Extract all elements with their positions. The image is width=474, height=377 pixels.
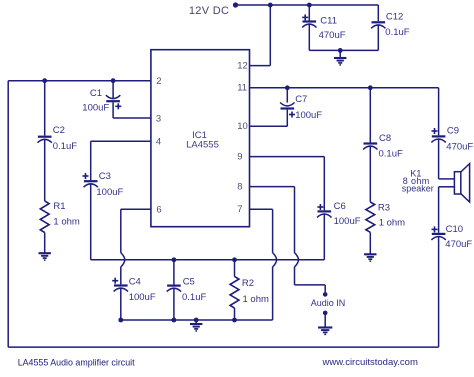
junction supply filter ground stub <box>338 48 343 53</box>
svg-text:1 ohm: 1 ohm <box>243 294 269 305</box>
svg-text:R3: R3 <box>378 202 390 213</box>
wire pin 4 to C3 <box>91 140 151 142</box>
label C3 <box>99 171 111 182</box>
capacitor C5 0.1uF <box>167 260 181 320</box>
label C2 value 0.1uF <box>53 141 77 152</box>
pin 11 number <box>237 83 247 94</box>
pin 7 number <box>237 204 242 215</box>
svg-text:C9: C9 <box>447 125 459 136</box>
IC IC1 LA4555 body <box>151 50 250 227</box>
wire C7 to pin 10 <box>250 125 288 127</box>
svg-text:10: 10 <box>237 121 248 132</box>
capacitor C11 470uF <box>302 5 316 50</box>
svg-text:11: 11 <box>237 83 247 94</box>
wire bottom component wire <box>121 319 273 321</box>
wire pin 8 with hop over bus to audio input <box>250 187 326 293</box>
label K1 <box>410 168 421 178</box>
label C10 value 470uF <box>445 239 472 250</box>
wire C1 to pin 3 <box>113 117 151 119</box>
pin 3 number <box>156 113 161 124</box>
svg-text:470uF: 470uF <box>319 30 346 41</box>
junction C2 branch on pin-2 wire <box>42 78 47 83</box>
pin 6 number <box>156 204 161 215</box>
svg-text:R1: R1 <box>53 201 65 212</box>
wire C2 top lead <box>44 81 46 136</box>
svg-text:C12: C12 <box>386 12 403 23</box>
label C11 value 470uF <box>319 30 346 41</box>
junction bottom-wire ground stub <box>194 318 199 323</box>
label C8 value 0.1uF <box>379 149 403 160</box>
junction C1 branch on pin-2 wire <box>111 78 116 83</box>
junction C5 bottom <box>172 318 177 323</box>
node audio ground terminal dot <box>323 311 328 316</box>
label LA4555 <box>186 140 219 151</box>
svg-text:LA4555 Audio amplifier circuit: LA4555 Audio amplifier circuit <box>18 357 135 367</box>
svg-text:C3: C3 <box>99 171 111 182</box>
label C10 <box>446 224 463 235</box>
wire bottom ground-return rail <box>8 346 438 348</box>
label C9 value 470uF <box>446 141 473 152</box>
label R3 value 1 ohm <box>379 217 405 228</box>
svg-text:C6: C6 <box>334 201 346 212</box>
capacitor C1 100uF <box>106 81 121 118</box>
capacitor C3 100uF <box>83 141 98 259</box>
label C1 <box>90 88 102 99</box>
svg-text:0.1uF: 0.1uF <box>379 149 403 160</box>
svg-text:6: 6 <box>156 204 161 215</box>
label C4 <box>129 276 141 287</box>
resistor R3 1 ohm <box>366 202 375 232</box>
wire pin 11 bus <box>250 87 439 89</box>
svg-text:Audio IN: Audio IN <box>311 298 346 308</box>
label C12 <box>386 12 403 23</box>
wire left rail <box>7 81 9 347</box>
label schematic title <box>18 357 135 367</box>
wire speaker upper lead <box>439 178 455 180</box>
junction C5 top on bus <box>172 257 177 262</box>
label C4 value 100uF <box>129 292 156 303</box>
svg-text:8: 8 <box>237 181 242 192</box>
wire supply rail to pin 12 <box>250 5 271 66</box>
pin 12 number <box>237 60 248 71</box>
label C2 <box>53 125 65 136</box>
label C7 value 100uF <box>295 110 322 121</box>
pin 10 number <box>237 121 248 132</box>
ground R1 <box>39 253 51 260</box>
junction R2 top on bus <box>232 257 237 262</box>
node Audio IN terminal dot <box>323 292 328 297</box>
speaker K1 8 ohm <box>454 164 469 202</box>
capacitor C9 470uF <box>431 88 445 179</box>
svg-text:C10: C10 <box>446 224 463 235</box>
wire pin 7 with hop over bus to bottom wire <box>250 209 277 320</box>
svg-text:0.1uF: 0.1uF <box>385 27 409 38</box>
svg-text:C4: C4 <box>129 276 141 287</box>
wire C2 to R1 <box>44 139 46 201</box>
wire R1 to ground <box>44 233 46 253</box>
capacitor C2 0.1uF <box>38 137 52 143</box>
label R1 <box>53 201 65 212</box>
svg-text:2: 2 <box>156 76 161 87</box>
wire 12V supply rail <box>236 4 379 6</box>
svg-text:4: 4 <box>156 137 161 148</box>
wire R3 to ground <box>369 232 371 253</box>
label C9 <box>447 125 459 136</box>
svg-text:C8: C8 <box>379 133 391 144</box>
svg-text:12: 12 <box>237 60 248 71</box>
label C8 <box>379 133 391 144</box>
svg-text:100uF: 100uF <box>96 187 123 198</box>
wire speaker lower lead <box>439 187 455 233</box>
node 12V DC supply label <box>189 5 229 17</box>
svg-text:speaker: speaker <box>402 183 434 193</box>
label C6 <box>334 201 346 212</box>
junction R2 bottom <box>232 318 237 323</box>
svg-text:1 ohm: 1 ohm <box>379 217 405 228</box>
capacitor C7 100uF <box>280 88 295 127</box>
label C7 <box>295 94 307 105</box>
pin 8 number <box>237 181 242 192</box>
capacitor C4 100uF <box>112 278 128 320</box>
label R2 value 1 ohm <box>243 294 269 305</box>
svg-text:1 ohm: 1 ohm <box>53 217 79 228</box>
pin 9 number <box>237 151 242 162</box>
capacitor C6 100uF <box>317 157 331 260</box>
label C5 <box>183 276 195 287</box>
junction C4 bottom <box>118 318 123 323</box>
label K1 8 ohm <box>403 176 430 186</box>
wire pin 6 to C4 with hop over bus <box>121 209 151 284</box>
label R3 <box>378 202 390 213</box>
label C12 value 0.1uF <box>385 27 409 38</box>
ground bottom wire <box>190 320 202 331</box>
wire C11 to C12 bottoms <box>309 49 378 51</box>
svg-text:0.1uF: 0.1uF <box>53 141 77 152</box>
svg-text:C7: C7 <box>295 94 307 105</box>
label C6 value 100uF <box>334 216 361 227</box>
label website credit <box>322 357 418 368</box>
svg-text:C5: C5 <box>183 276 195 287</box>
svg-text:7: 7 <box>237 204 242 215</box>
svg-text:R2: R2 <box>242 278 254 289</box>
junction C11 on supply rail <box>307 3 312 8</box>
capacitor C12 0.1uF <box>371 5 385 50</box>
label R1 value 1 ohm <box>53 217 79 228</box>
ground audio input <box>318 313 332 335</box>
label R2 <box>242 278 254 289</box>
pin 4 number <box>156 137 161 148</box>
svg-text:0.1uF: 0.1uF <box>182 292 206 303</box>
pin 2 number <box>156 76 161 87</box>
junction C7 on pin-11 bus <box>285 85 290 90</box>
capacitor C8 0.1uF <box>363 88 377 202</box>
junction pin-12 drop on supply rail <box>268 3 273 8</box>
capacitor C10 470uF <box>431 226 445 347</box>
svg-text:470uF: 470uF <box>446 141 473 152</box>
svg-text:3: 3 <box>156 113 161 124</box>
svg-text:LA4555: LA4555 <box>186 140 219 151</box>
wire lower bus <box>91 259 325 261</box>
wire pin 2 to left rail <box>8 80 151 82</box>
label Audio IN <box>311 298 346 308</box>
label K1 speaker <box>402 183 434 193</box>
svg-text:12V DC: 12V DC <box>189 5 229 17</box>
label C11 <box>320 15 337 26</box>
svg-text:100uF: 100uF <box>129 292 156 303</box>
ground supply filter <box>334 50 346 65</box>
label C3 value 100uF <box>96 187 123 198</box>
node 12V DC terminal dot <box>233 2 238 7</box>
junction C8 branch on pin-11 bus <box>368 85 373 90</box>
svg-text:100uF: 100uF <box>334 216 361 227</box>
wire pin 9 to C6 <box>250 156 325 158</box>
label C1 value 100uF <box>82 103 109 114</box>
svg-text:470uF: 470uF <box>445 239 472 250</box>
svg-text:C2: C2 <box>53 125 65 136</box>
svg-text:www.circuitstoday.com: www.circuitstoday.com <box>322 357 418 368</box>
svg-text:9: 9 <box>237 151 242 162</box>
svg-text:100uF: 100uF <box>82 103 109 114</box>
resistor R2 1 ohm <box>230 260 239 320</box>
ground R3 <box>364 254 376 261</box>
resistor R1 1 ohm <box>40 201 49 233</box>
svg-text:C1: C1 <box>90 88 102 99</box>
label C5 value 0.1uF <box>182 292 206 303</box>
label IC1 <box>192 130 207 141</box>
svg-text:100uF: 100uF <box>295 110 322 121</box>
svg-text:C11: C11 <box>320 15 337 26</box>
